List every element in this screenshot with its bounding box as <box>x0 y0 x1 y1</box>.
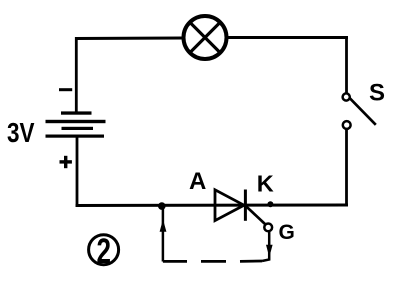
trigger wire dashed segment 3 <box>240 260 262 263</box>
battery B1 plate long <box>46 120 106 123</box>
switch S circle top <box>343 93 350 100</box>
battery B1 plate short top <box>61 111 92 114</box>
wire left vertical lower <box>76 136 79 207</box>
svg-text:S: S <box>369 80 385 107</box>
wire top-left horizontal <box>75 37 183 41</box>
lamp L1 <box>184 16 227 59</box>
svg-text:K: K <box>257 171 274 197</box>
switch S circle bottom <box>343 121 351 129</box>
wire bottom horizontal <box>76 204 348 208</box>
battery B1 plate long bottom <box>46 135 105 138</box>
node junction dot left <box>158 202 166 210</box>
SCR D1 triangle <box>215 190 244 221</box>
node junction dot right <box>267 201 273 207</box>
svg-text:G: G <box>279 221 295 244</box>
trigger arrow down <box>266 245 273 257</box>
svg-text:2: 2 <box>97 232 112 271</box>
battery B1 plate short mid <box>62 127 94 130</box>
SCR gate terminal circle <box>264 224 272 232</box>
trigger wire dashed segment 2 <box>201 260 226 263</box>
trigger arrow up <box>160 219 167 232</box>
figure number circle 2 <box>89 235 119 265</box>
switch S lever <box>349 98 375 125</box>
trigger wire dashed segment 1 <box>163 260 187 263</box>
wire top-right horizontal <box>227 36 348 39</box>
trigger wire left vertical <box>162 209 165 262</box>
SCR D1 gate lead <box>245 205 266 224</box>
svg-text:A: A <box>189 168 206 195</box>
SCR D1 cathode bar <box>244 190 247 221</box>
wire left vertical upper <box>75 37 78 113</box>
trigger wire corner to gate <box>262 232 269 261</box>
svg-text:3V: 3V <box>7 117 35 148</box>
battery minus sign <box>59 88 72 91</box>
wire right vertical lower <box>345 130 348 207</box>
wire right vertical upper <box>345 36 348 94</box>
battery plus sign <box>60 156 72 168</box>
